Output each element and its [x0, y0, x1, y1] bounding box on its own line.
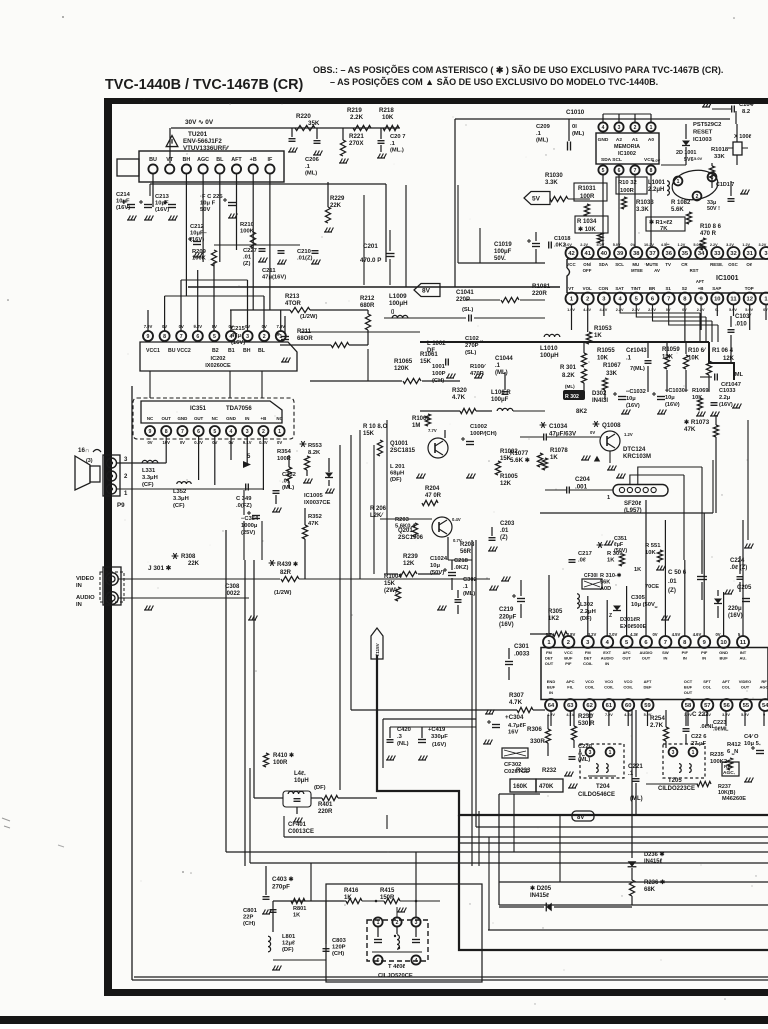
svg-text:Q201: Q201	[398, 528, 413, 534]
svg-text:A0: A0	[648, 137, 654, 143]
svg-text:8V: 8V	[422, 287, 431, 294]
svg-text:R307: R307	[509, 692, 524, 699]
svg-text:220R: 220R	[318, 809, 333, 815]
svg-text:0I: 0I	[572, 124, 577, 130]
svg-text:8.2K: 8.2K	[308, 450, 321, 456]
svg-text:(16V): (16V)	[499, 622, 514, 628]
svg-text:220μ: 220μ	[728, 606, 742, 612]
svg-text:FM: FM	[585, 650, 591, 655]
svg-text:70CE: 70CE	[645, 584, 659, 590]
svg-text:(ML): (ML)	[495, 370, 508, 376]
svg-text:R416: R416	[344, 888, 359, 894]
svg-text:IN: IN	[245, 416, 249, 421]
svg-text:CILDO546CE: CILDO546CE	[578, 792, 615, 798]
svg-text:120K: 120K	[394, 365, 409, 372]
svg-text:L2K⁄: L2K⁄	[370, 513, 384, 519]
svg-text:IF: IF	[268, 157, 273, 163]
svg-text:CILDO223CE: CILDO223CE	[658, 786, 695, 792]
svg-text:C302: C302	[463, 577, 477, 583]
svg-text:C205: C205	[737, 585, 752, 591]
svg-text:100R: 100R	[580, 194, 595, 200]
svg-text:+B: +B	[261, 416, 267, 421]
svg-text:RESET: RESET	[693, 130, 713, 136]
svg-text:270P: 270P	[465, 343, 479, 349]
svg-text:33K: 33K	[714, 154, 725, 160]
svg-text:50V.: 50V.	[494, 256, 506, 262]
svg-text:R1004: R1004	[384, 574, 402, 580]
svg-text:3: 3	[589, 750, 592, 756]
svg-text:R1059: R1059	[662, 347, 680, 353]
svg-text:100K: 100K	[240, 229, 255, 235]
svg-text:C218: C218	[454, 558, 469, 564]
svg-text:4.6V: 4.6V	[693, 632, 702, 637]
svg-text:(CF): (CF)	[142, 482, 154, 488]
svg-text:530 R: 530 R	[578, 720, 595, 727]
svg-text:∕ML: ∕ML	[732, 372, 744, 378]
svg-text:3.3K: 3.3K	[545, 180, 558, 186]
svg-text:SFT: SFT	[703, 679, 711, 684]
svg-text:(ML.): (ML.)	[390, 148, 404, 154]
svg-text:IN: IN	[549, 690, 553, 695]
svg-text:5.0V: 5.0V	[694, 156, 703, 161]
svg-text:R212: R212	[360, 296, 375, 302]
svg-text:5: 5	[213, 334, 216, 340]
svg-text:C227: C227	[243, 248, 257, 254]
svg-text:BH: BH	[243, 348, 251, 354]
svg-text:R10 6⁄: R10 6⁄	[688, 348, 707, 354]
svg-text:PIF: PIF	[701, 650, 708, 655]
svg-text:R1069: R1069	[692, 388, 708, 394]
svg-text:IN: IN	[76, 602, 82, 608]
svg-text:C104⁄: C104⁄	[739, 102, 756, 108]
svg-text:IC1001: IC1001	[716, 275, 739, 282]
svg-text:NC: NC	[147, 416, 154, 421]
svg-text:A0D: A0D	[600, 586, 611, 592]
svg-text:5.6K ✱: 5.6K ✱	[510, 457, 530, 464]
svg-text:VT: VT	[568, 286, 574, 291]
svg-text:CON: CON	[599, 286, 609, 291]
svg-text:BUF: BUF	[547, 685, 556, 690]
svg-text:22K: 22K	[330, 203, 342, 209]
svg-text:R1078: R1078	[550, 448, 568, 454]
svg-text:C20 7: C20 7	[390, 134, 405, 140]
svg-text:4: 4	[602, 125, 605, 131]
svg-text:6: 6	[196, 334, 199, 340]
svg-text:L1009: L1009	[389, 293, 407, 300]
svg-text:3.3K: 3.3K	[636, 207, 649, 213]
svg-text:8K2: 8K2	[576, 409, 588, 415]
svg-text:COIL: COIL	[604, 685, 614, 690]
svg-text:OSC: OSC	[728, 262, 738, 267]
svg-text:Cℓ1043: Cℓ1043	[626, 348, 647, 354]
svg-text:C1041: C1041	[456, 290, 474, 296]
svg-text:R213: R213	[285, 294, 300, 300]
svg-text:R1061: R1061	[420, 352, 438, 358]
svg-text:.0022: .0022	[225, 591, 241, 597]
svg-text:3: 3	[764, 251, 768, 257]
svg-text:10μ 5․: 10μ 5․	[744, 741, 761, 747]
svg-text:3: 3	[672, 750, 675, 756]
svg-text:220R: 220R	[532, 290, 547, 297]
svg-text:SAT: SAT	[615, 286, 624, 291]
svg-text:R1053: R1053	[594, 326, 612, 332]
svg-text:IN: IN	[76, 583, 82, 589]
svg-text:61: 61	[606, 703, 613, 709]
svg-text:SAP: SAP	[712, 286, 721, 291]
svg-text:C1019: C1019	[494, 242, 512, 248]
svg-text:RESE․: RESE․	[710, 262, 723, 267]
svg-text:AUDIO: AUDIO	[76, 595, 95, 601]
svg-text:(DF): (DF)	[282, 947, 294, 953]
svg-text:6: 6	[197, 429, 200, 435]
svg-text:1: 1	[764, 297, 768, 303]
svg-text:6 ⎵N: 6 ⎵N	[727, 749, 738, 755]
svg-text:1: 1	[677, 179, 680, 185]
svg-text:C301: C301	[514, 643, 529, 650]
svg-text:R1067: R1067	[603, 363, 621, 369]
svg-text:.0ℓML: .0ℓML	[713, 727, 729, 733]
svg-text:IN: IN	[702, 656, 706, 661]
svg-text:(25V): (25V)	[241, 530, 255, 536]
svg-text:VIDEO: VIDEO	[739, 679, 751, 684]
svg-text:270X: 270X	[349, 140, 364, 147]
svg-text:82R: 82R	[280, 570, 292, 576]
svg-text:R219: R219	[347, 107, 362, 114]
svg-text:R210: R210	[240, 222, 254, 228]
svg-text:10μ: 10μ	[626, 396, 636, 402]
svg-text:R220: R220	[296, 113, 311, 120]
svg-text:1: 1	[279, 334, 282, 340]
svg-text:2: 2	[567, 640, 570, 646]
svg-text:C223: C223	[713, 720, 726, 726]
svg-text:IN: IN	[663, 656, 667, 661]
svg-text:SF20ℓ: SF20ℓ	[624, 501, 641, 507]
svg-text:COIL: COIL	[583, 661, 593, 666]
svg-text:7: 7	[634, 168, 637, 174]
svg-text:(50V): (50V)	[614, 548, 627, 554]
svg-text:+B: +B	[250, 157, 257, 163]
svg-text:T204: T204	[596, 784, 610, 790]
svg-text:R 551: R 551	[645, 543, 661, 549]
svg-text:9: 9	[147, 334, 150, 340]
svg-text:L1001: L1001	[648, 180, 666, 186]
svg-text:35K: 35K	[308, 120, 320, 127]
svg-text:R254: R254	[650, 715, 665, 722]
svg-text:2: 2	[262, 429, 265, 435]
svg-text:40: 40	[601, 251, 607, 257]
svg-text:Q1008: Q1008	[602, 422, 621, 429]
svg-text:R10 8 6: R10 8 6	[700, 224, 722, 230]
svg-text:1M: 1M	[412, 423, 420, 429]
svg-text:2: 2	[396, 920, 399, 926]
svg-text:1: 1	[609, 750, 612, 756]
svg-text:+B: +B	[698, 286, 704, 291]
svg-text:.1: .1	[626, 356, 632, 362]
svg-text:10μF–: 10μF–	[190, 231, 208, 237]
svg-text:680R: 680R	[360, 303, 375, 309]
svg-text:.1: .1	[390, 141, 396, 147]
svg-text:SCL: SCL	[615, 262, 624, 267]
svg-text:8: 8	[165, 429, 168, 435]
svg-text:ON/: ON/	[583, 262, 592, 267]
svg-text:7: 7	[664, 640, 667, 646]
svg-text:C213: C213	[155, 194, 170, 200]
svg-text:C0013CE: C0013CE	[288, 829, 314, 835]
svg-text:1K: 1K	[607, 558, 615, 564]
svg-text:AFT: AFT	[722, 679, 730, 684]
svg-text:C1010: C1010	[566, 109, 585, 116]
svg-text:1: 1	[607, 495, 610, 501]
svg-text:VCO: VCO	[585, 679, 594, 684]
svg-text:100P: 100P	[432, 371, 446, 377]
svg-text:DTC124: DTC124	[623, 447, 646, 453]
svg-text:C201: C201	[363, 243, 378, 250]
svg-text:C1034: C1034	[549, 423, 568, 430]
svg-text:SDA SCL: SDA SCL	[601, 157, 622, 163]
svg-text:.1: .1	[495, 363, 501, 369]
svg-text:IN: IN	[605, 661, 609, 666]
svg-text:AUDIO: AUDIO	[601, 656, 614, 661]
svg-text:C1033: C1033	[719, 388, 735, 394]
svg-text:IN415ℓ: IN415ℓ	[530, 893, 549, 899]
svg-text:Oℓ: Oℓ	[746, 262, 752, 267]
svg-text:1K: 1K	[550, 455, 558, 461]
svg-text:PST529C2: PST529C2	[693, 122, 721, 128]
svg-text:7K: 7K	[660, 226, 668, 232]
svg-text:57: 57	[704, 703, 710, 709]
svg-text:54: 54	[762, 703, 768, 709]
svg-text:VCC: VCC	[564, 650, 573, 655]
svg-text:R439 ✱: R439 ✱	[277, 561, 298, 568]
svg-text:IX0037CE: IX0037CE	[304, 500, 331, 506]
svg-text:62: 62	[586, 703, 592, 709]
svg-text:(16V): (16V)	[626, 403, 640, 409]
svg-text:(ML): (ML)	[572, 131, 584, 137]
svg-text:OFF: OFF	[583, 268, 592, 273]
svg-text:R553: R553	[308, 443, 323, 449]
svg-text:CF401: CF401	[288, 822, 307, 828]
svg-text:C1002: C1002	[470, 424, 487, 430]
svg-text:0V: 0V	[590, 430, 595, 435]
svg-text:R 310-✱: R 310-✱	[600, 572, 622, 579]
svg-text:0V: 0V	[277, 440, 282, 445]
svg-text:2: 2	[634, 125, 637, 131]
svg-text:+C419: +C419	[428, 727, 446, 733]
svg-text:56K: 56K	[600, 580, 610, 586]
svg-text:3: 3	[246, 429, 249, 435]
svg-text:C210: C210	[297, 249, 311, 255]
svg-text:OUT: OUT	[684, 690, 693, 695]
svg-text:C801: C801	[243, 908, 258, 914]
svg-text:63: 63	[567, 703, 574, 709]
svg-text:55: 55	[743, 703, 750, 709]
svg-text:10: 10	[714, 297, 720, 303]
svg-text:TU201: TU201	[188, 131, 208, 138]
svg-text:BUF: BUF	[719, 656, 728, 661]
svg-text:CF30I: CF30I	[584, 573, 598, 579]
svg-text:R1065: R1065	[394, 358, 413, 365]
svg-text:L331: L331	[142, 468, 156, 474]
svg-text:4: 4	[230, 429, 233, 435]
svg-text:GND: GND	[598, 137, 609, 143]
svg-text:(1/2W): (1/2W)	[274, 590, 291, 596]
svg-text:C803: C803	[332, 938, 347, 944]
svg-text:5: 5	[602, 168, 605, 174]
svg-text:END: END	[547, 679, 556, 684]
svg-text:.0KZ): .0KZ)	[454, 565, 469, 571]
svg-text:VOL: VOL	[583, 286, 592, 291]
svg-text:R352: R352	[308, 514, 322, 520]
svg-text:(16V): (16V)	[155, 207, 169, 213]
svg-text:BUF: BUF	[684, 685, 693, 690]
svg-text:.01: .01	[243, 255, 252, 261]
svg-text:AV: AV	[654, 268, 660, 273]
svg-text:4.5V: 4.5V	[672, 632, 681, 637]
svg-text:(16V): (16V)	[728, 613, 743, 619]
svg-text:4.7K: 4.7K	[509, 699, 523, 706]
svg-text:470 R: 470 R	[700, 231, 717, 237]
svg-text:R203: R203	[395, 517, 410, 523]
svg-text:7: 7	[667, 297, 670, 303]
svg-text:2.2μ: 2.2μ	[719, 395, 731, 401]
svg-text:R801: R801	[293, 906, 306, 912]
svg-text:.1: .1	[305, 164, 311, 170]
svg-text:0V: 0V	[652, 632, 657, 637]
svg-text:.1: .1	[628, 770, 634, 777]
svg-text:R209: R209	[192, 249, 207, 255]
svg-text:A1: A1	[632, 137, 638, 143]
svg-text:BL: BL	[216, 157, 224, 163]
svg-text:22K: 22K	[188, 561, 200, 567]
svg-text:11: 11	[730, 297, 737, 303]
svg-text:GND: GND	[719, 650, 728, 655]
svg-text:47K: 47K	[308, 521, 319, 527]
svg-text:41: 41	[584, 251, 591, 257]
svg-text:.1: .1	[536, 131, 542, 137]
svg-text:1001: 1001	[432, 364, 446, 370]
svg-text:(CH): (CH)	[332, 951, 344, 957]
svg-text:C219: C219	[499, 607, 514, 613]
svg-text:DEF: DEF	[644, 685, 653, 690]
svg-text:50V !: 50V !	[707, 206, 720, 212]
svg-text:R415: R415	[380, 888, 395, 894]
svg-text:RST: RST	[690, 268, 699, 273]
svg-text:VCO: VCO	[605, 679, 614, 684]
svg-text:100μF: 100μF	[491, 397, 509, 403]
svg-text:L352: L352	[173, 489, 186, 495]
svg-text:2SC1906: 2SC1906	[398, 535, 424, 541]
svg-text:1K2: 1K2	[548, 616, 560, 622]
svg-text:12K: 12K	[403, 560, 415, 567]
svg-text:NC: NC	[212, 416, 219, 421]
svg-text:470.0 P: 470.0 P	[360, 257, 381, 264]
svg-text:5.6K: 5.6K	[671, 207, 684, 213]
svg-text:50V: 50V	[200, 207, 210, 213]
svg-text:12: 12	[746, 297, 752, 303]
svg-text:C209: C209	[536, 124, 551, 130]
svg-text:L 201: L 201	[390, 464, 405, 470]
svg-text:60: 60	[625, 703, 631, 709]
svg-text:TDA7056: TDA7056	[226, 406, 252, 412]
svg-text:1: 1	[692, 750, 695, 756]
svg-text:10μ (50V⎵: 10μ (50V⎵	[631, 602, 658, 608]
svg-text:B1: B1	[228, 348, 235, 354]
svg-text:TINT: TINT	[631, 286, 641, 291]
svg-text:VCC1: VCC1	[146, 348, 160, 354]
svg-text:100μH: 100μH	[540, 352, 559, 359]
svg-text:.01: .01	[282, 479, 291, 485]
svg-text:16V: 16V	[508, 730, 518, 736]
svg-text:3: 3	[246, 334, 249, 340]
svg-text:R204: R204	[425, 486, 440, 492]
svg-text:R218: R218	[379, 107, 394, 114]
svg-text:R306: R306	[527, 726, 542, 733]
svg-text:5: 5	[213, 429, 216, 435]
svg-text:R239: R239	[403, 553, 418, 560]
svg-text:220P: 220P	[456, 297, 470, 303]
svg-text:L100 R: L100 R	[491, 390, 511, 396]
svg-text:38: 38	[633, 251, 640, 257]
svg-text:(Z): (Z)	[500, 535, 508, 541]
svg-text:33K: 33K	[606, 371, 618, 377]
svg-text:VCO: VCO	[624, 679, 633, 684]
svg-text:R1055: R1055	[597, 348, 615, 354]
svg-text:BU VCC2: BU VCC2	[168, 348, 191, 354]
svg-text:CILJO520CE: CILJO520CE	[378, 973, 413, 979]
svg-text:1K: 1K	[594, 333, 602, 339]
svg-text:A2: A2	[616, 137, 622, 143]
svg-text:RF: RF	[761, 679, 767, 684]
svg-text:.0033: .0033	[514, 651, 530, 658]
svg-text:(NL): (NL)	[397, 741, 409, 747]
svg-text:R230: R230	[578, 713, 593, 720]
svg-text:10K: 10K	[688, 356, 700, 362]
svg-text:0.7V: 0.7V	[453, 538, 462, 543]
svg-text:R 301: R 301	[560, 365, 577, 371]
svg-text:(SL): (SL)	[465, 350, 476, 356]
svg-text:10K: 10K	[645, 550, 656, 556]
svg-text:(16V): (16V)	[190, 237, 204, 243]
svg-text:T 4ℓ0ℓ: T 4ℓ0ℓ	[388, 964, 405, 970]
svg-text:C420: C420	[397, 727, 411, 733]
svg-text:R1066: R1066	[412, 416, 430, 422]
svg-text:OUT: OUT	[741, 685, 750, 690]
svg-text:10μ: 10μ	[430, 563, 440, 569]
svg-text:AGC: AGC	[197, 157, 209, 163]
svg-text:AFT: AFT	[696, 279, 705, 284]
svg-text:2: 2	[586, 297, 589, 303]
svg-text:8.2K: 8.2K	[562, 373, 575, 379]
svg-text:R1033: R1033	[636, 200, 654, 206]
svg-text:D301ℓR: D301ℓR	[620, 617, 640, 623]
svg-text:OCT: OCT	[684, 679, 693, 684]
svg-text:0V: 0V	[147, 440, 152, 445]
svg-text:(DF): (DF)	[314, 785, 326, 791]
svg-text:IC351: IC351	[190, 406, 207, 412]
svg-text:12μℓ: 12μℓ	[282, 941, 295, 947]
svg-text:SW: SW	[662, 650, 669, 655]
svg-text:PIF: PIF	[682, 650, 689, 655]
svg-text:.0ℓ (Z): .0ℓ (Z)	[730, 565, 747, 571]
svg-text:R236 ✱: R236 ✱	[644, 879, 665, 886]
svg-text:VCC: VCC	[566, 262, 576, 267]
svg-text:(16V⁄): (16V⁄)	[665, 402, 680, 408]
svg-text:VT: VT	[166, 157, 174, 163]
svg-text:470K: 470K	[539, 784, 554, 790]
svg-text:MEMORIA: MEMORIA	[614, 144, 640, 150]
svg-text:A⎵: A⎵	[578, 751, 585, 757]
svg-text:C 50 6: C 50 6	[668, 569, 687, 576]
